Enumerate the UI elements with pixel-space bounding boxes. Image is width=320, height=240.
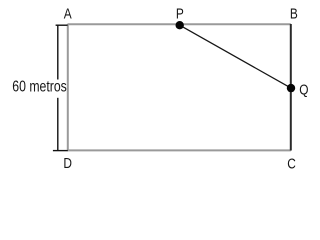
dimension top tick: [56, 24, 68, 26]
label 60 metros: [12, 78, 67, 96]
dimension bottom tick: [53, 150, 68, 152]
label B: [290, 5, 298, 21]
point P: [176, 21, 184, 29]
svg-text:P: P: [176, 5, 184, 21]
svg-text:Q: Q: [299, 81, 308, 97]
rectangle right edge BC: [290, 24, 292, 151]
svg-text:B: B: [290, 5, 298, 21]
dimension line lower segment: [57, 98, 59, 151]
point Q: [287, 84, 295, 92]
label A: [64, 5, 72, 21]
label C: [287, 155, 296, 171]
dimension line upper segment: [57, 25, 59, 79]
rectangle left edge AD: [67, 24, 69, 151]
svg-text:A: A: [64, 5, 72, 21]
rectangle bottom edge DC: [68, 149, 291, 151]
segment PQ: [180, 25, 291, 88]
svg-text:60 metros: 60 metros: [12, 78, 67, 96]
svg-text:D: D: [63, 155, 72, 171]
rectangle top edge AB: [68, 23, 291, 25]
label D: [63, 155, 72, 171]
svg-text:C: C: [287, 155, 296, 171]
label P: [176, 5, 184, 21]
label Q: [299, 81, 308, 97]
